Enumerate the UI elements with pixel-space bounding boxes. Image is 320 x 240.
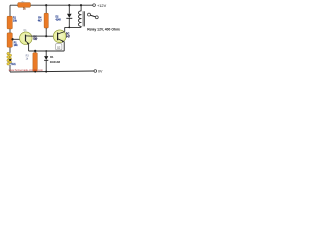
svg-text:4148: 4148 [56,18,62,21]
node R3 bottom [34,71,36,73]
preset P1 [7,33,12,47]
wire collector to relay [65,26,81,28]
thermistor TH1 [7,52,12,65]
relay core [82,11,84,26]
wire wiper to Q1 base [13,38,26,40]
wire node A to Q2 base [46,35,57,37]
svg-text:+12V: +12V [97,3,107,8]
wire R4 top lead [45,5,47,13]
wire Q1 collector to node A [32,35,46,37]
wire Q1 emitter down [28,43,30,51]
terminal 0V [94,70,97,73]
node junction top relay [80,4,82,6]
wire emitter rail [29,50,65,52]
resistor R2 [18,3,31,8]
wire top rail [10,4,93,6]
node wiper [11,38,13,40]
node A [45,35,47,37]
diode D1 [45,51,47,56]
diode D2 [68,5,70,14]
label Q2 box [56,44,62,50]
wire Q2 emitter down [63,41,65,51]
node R3 tap [34,50,36,52]
svg-text:1N4148: 1N4148 [50,60,61,64]
svg-text:Relay 12V, 400 Ohms: Relay 12V, 400 Ohms [87,28,120,32]
relay contact [88,13,91,16]
node D1 tap [45,50,47,52]
wire left column lower [9,65,11,72]
svg-text:10k: 10k [14,44,19,47]
svg-text:4k7: 4k7 [38,19,43,22]
svg-text:www.homemade-circuits.com: www.homemade-circuits.com [9,68,44,72]
node junction top D2 [68,4,70,6]
wire bottom rail [10,71,94,72]
resistor R3 [34,51,36,53]
wire left column upper [9,5,11,53]
svg-text:10k: 10k [13,20,18,23]
terminal +12V [93,4,96,7]
wire Q2 collector up [64,27,66,31]
svg-text:547: 547 [66,36,71,39]
svg-text:TH1: TH1 [10,62,16,66]
svg-text:Q2: Q2 [57,46,61,50]
node junction top R4 [45,4,47,6]
transistor Q1 [20,32,33,45]
resistor R1 [7,16,12,29]
svg-text:547: 547 [33,38,38,41]
svg-text:0V: 0V [98,69,103,73]
wire R4 bottom to node A [45,28,47,36]
relay coil [80,5,82,11]
transistor Q2 [53,30,66,43]
resistor R4 [44,13,48,28]
svg-text:D1: D1 [50,55,54,59]
